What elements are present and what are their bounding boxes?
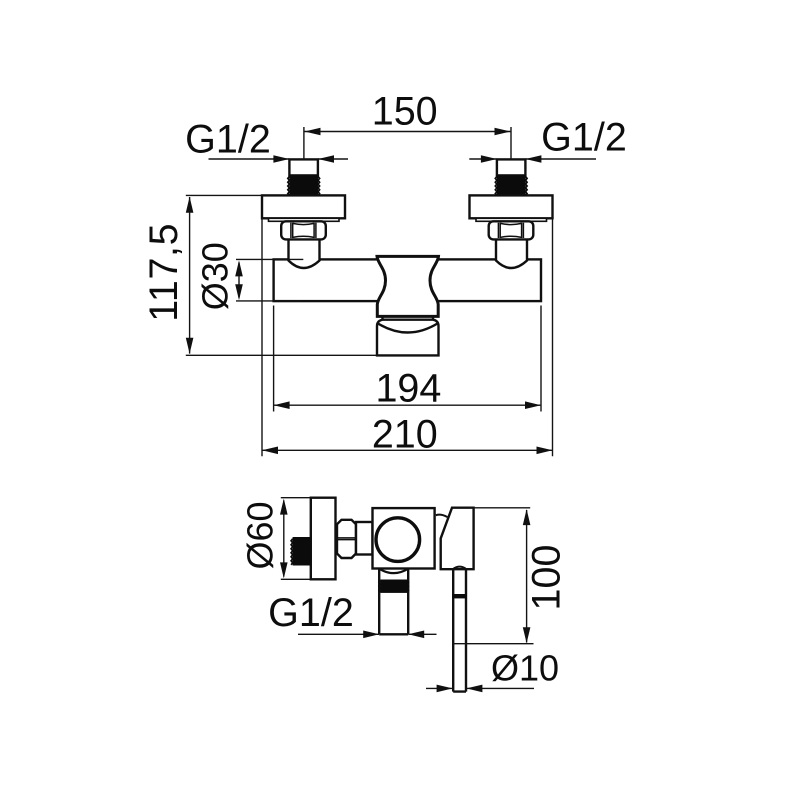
dim 100 shaft — [526, 510, 528, 643]
escutcheon plate — [311, 498, 336, 580]
dim Ø60 shaft — [283, 501, 285, 577]
right wall flange — [470, 195, 553, 218]
dim Ø10 arrows — [437, 685, 483, 693]
cartridge circle — [376, 518, 420, 562]
right connector dome — [496, 239, 527, 268]
G1/2 bottom arrows — [363, 631, 424, 639]
dim 194 extension lines — [274, 306, 541, 412]
knob neck lines — [383, 316, 434, 319]
wall thread serration — [291, 539, 293, 565]
svg-text:Ø60: Ø60 — [239, 501, 280, 569]
dim 117,5 extension lines — [186, 195, 378, 355]
left wall flange — [262, 195, 345, 218]
dim 210 arrows — [262, 447, 553, 455]
G1/2 bottom leader lines — [298, 633, 437, 635]
hex nut mid lines — [337, 538, 356, 540]
right nut facets — [498, 223, 523, 238]
right thread serration — [495, 177, 527, 196]
right flange lip — [476, 218, 547, 221]
rod joint band — [452, 594, 466, 598]
body tube — [274, 259, 541, 301]
dim 150 extension lines — [304, 127, 511, 159]
dim Ø30 arrows — [235, 260, 243, 300]
svg-text:100: 100 — [525, 545, 569, 611]
left hex nut — [281, 221, 326, 239]
svg-text:G1/2: G1/2 — [541, 116, 627, 160]
dim 194 arrows — [274, 401, 541, 409]
right thread block — [497, 175, 526, 195]
knob body — [377, 320, 439, 356]
svg-text:G1/2: G1/2 — [185, 118, 271, 162]
lever handle — [441, 508, 474, 570]
outlet thread band — [380, 580, 407, 593]
left nut facets — [291, 223, 316, 238]
svg-text:G1/2: G1/2 — [268, 591, 354, 635]
dim Ø10 leader lines — [426, 687, 534, 689]
outlet pipe — [379, 569, 408, 635]
dim 150 arrows — [305, 128, 511, 136]
dim Ø30 extension lines — [236, 259, 303, 301]
right inlet stub — [497, 159, 526, 175]
left inlet stub — [289, 159, 318, 175]
rod socket arc — [453, 567, 466, 569]
G1/2 right arrows — [481, 155, 542, 163]
dim Ø60 arrows — [280, 499, 288, 579]
left connector dome — [289, 239, 320, 268]
connector pipe piece — [356, 522, 373, 555]
G1/2 left leader lines — [209, 158, 349, 160]
outlet band serration — [379, 581, 409, 592]
valve body block — [373, 508, 435, 568]
svg-text:117,5: 117,5 — [142, 223, 186, 322]
dim 117,5 arrows — [186, 197, 194, 354]
handle rod — [453, 569, 466, 692]
dim Ø30 shaft — [238, 263, 240, 298]
svg-text:150: 150 — [372, 90, 438, 134]
G1/2 left arrows — [273, 155, 334, 163]
dim 210 extension lines — [262, 218, 553, 456]
left flange lip — [269, 218, 340, 221]
wall thread block — [293, 537, 311, 566]
lever fillet arc — [436, 515, 448, 517]
G1/2 right leader lines — [469, 158, 596, 160]
dim 210 line — [262, 449, 553, 451]
dim 194 line — [274, 404, 541, 406]
dim 150 line — [305, 131, 511, 133]
centre spool holder — [377, 256, 439, 316]
left thread block — [289, 175, 318, 195]
outlet fillet arc — [379, 569, 408, 573]
hex nut side — [337, 520, 356, 558]
svg-text:Ø30: Ø30 — [195, 242, 236, 310]
dim 100 extension lines — [453, 508, 534, 644]
dim 117,5 line — [189, 197, 191, 354]
escutcheon plate extension edges — [281, 498, 311, 580]
dim 100 arrows — [523, 509, 531, 643]
svg-text:Ø10: Ø10 — [491, 648, 559, 689]
svg-text:194: 194 — [375, 366, 441, 410]
knob smile arc — [377, 323, 438, 333]
left thread serration — [288, 177, 320, 196]
right hex nut — [489, 221, 534, 239]
